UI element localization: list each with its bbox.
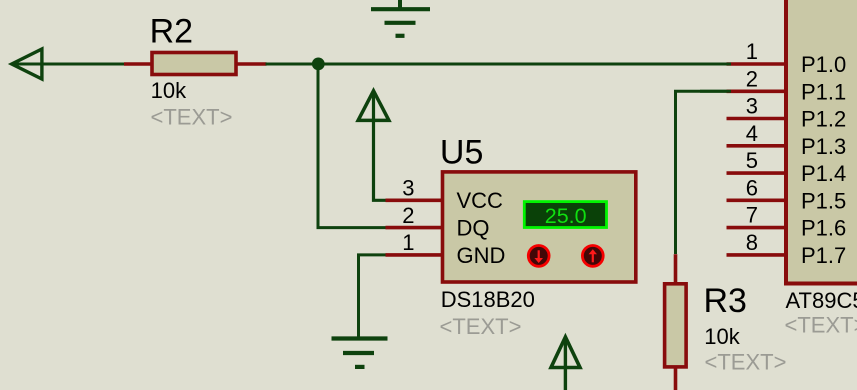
power arrow (U5 VCC) <box>358 91 389 201</box>
svg-text:P1.3: P1.3 <box>801 134 846 159</box>
svg-text:25.0: 25.0 <box>545 204 587 228</box>
chip pin stub 4 <box>727 144 787 148</box>
svg-text:<TEXT>: <TEXT> <box>705 350 787 375</box>
svg-text:8: 8 <box>746 230 758 255</box>
svg-text:10k: 10k <box>151 78 187 103</box>
svg-text:6: 6 <box>746 175 758 200</box>
svg-text:5: 5 <box>746 148 758 173</box>
power arrow (bottom) <box>551 337 580 390</box>
chip pin stub 2 <box>727 90 787 94</box>
svg-text:10k: 10k <box>704 324 740 349</box>
svg-text:R3: R3 <box>704 282 747 320</box>
resistor R2 <box>124 12 267 129</box>
svg-text:P1.7: P1.7 <box>801 243 846 268</box>
svg-text:3: 3 <box>402 176 414 201</box>
chip pin numbers <box>746 39 758 255</box>
svg-text:DQ: DQ <box>457 216 490 241</box>
junction dot <box>312 58 325 71</box>
svg-text:<TEXT>: <TEXT> <box>785 313 857 338</box>
wire: R2 to chip pin 1 <box>266 63 732 66</box>
svg-text:GND: GND <box>457 243 506 268</box>
pin stub 3 VCC <box>386 199 442 203</box>
svg-text:1: 1 <box>402 230 414 255</box>
chip pin stub 5 <box>727 171 787 175</box>
terminal arrow (left) <box>12 49 42 79</box>
LCD display <box>524 202 606 228</box>
svg-text:P1.0: P1.0 <box>801 52 846 77</box>
wire: chip pin 2 to R3 <box>676 91 732 254</box>
svg-text:DS18B20: DS18B20 <box>441 287 535 312</box>
button up <box>582 246 603 267</box>
button down <box>528 246 549 267</box>
wire overlay pin 2 <box>700 90 731 93</box>
ground (top) <box>371 0 430 36</box>
chip pin stub 3 <box>727 117 787 121</box>
wire: junction down to U5 DQ <box>318 64 387 228</box>
wire: left segment to R2 <box>13 63 125 66</box>
svg-text:3: 3 <box>746 94 758 119</box>
svg-text:AT89C52: AT89C52 <box>786 288 857 313</box>
svg-text:4: 4 <box>746 121 758 146</box>
svg-text:P1.2: P1.2 <box>801 107 846 132</box>
sensor U5 (DS18B20) <box>386 133 636 339</box>
ground (bottom, U5) <box>332 339 388 367</box>
svg-text:<TEXT>: <TEXT> <box>151 105 233 130</box>
svg-text:P1.5: P1.5 <box>801 188 846 213</box>
svg-text:P1.6: P1.6 <box>801 216 846 241</box>
svg-text:U5: U5 <box>440 133 483 171</box>
chip pin names P1.0-P1.7 <box>801 52 846 268</box>
svg-text:1: 1 <box>746 39 758 64</box>
pin stub 2 DQ <box>386 226 442 230</box>
svg-text:<TEXT>: <TEXT> <box>440 314 522 339</box>
svg-text:P1.4: P1.4 <box>801 161 846 186</box>
wire overlay pin 1 <box>700 63 731 66</box>
wire: U5 GND to ground <box>359 255 387 338</box>
chip pin stub 6 <box>727 199 787 203</box>
svg-text:2: 2 <box>746 66 758 91</box>
chip pin stub 8 <box>727 253 787 257</box>
svg-text:7: 7 <box>746 203 758 228</box>
chip pin stub 7 <box>727 226 787 230</box>
chip U? AT89C52 body <box>786 0 857 284</box>
chip pin stub 1 <box>727 62 787 66</box>
svg-text:2: 2 <box>402 203 414 228</box>
pin stub 1 GND <box>386 253 442 257</box>
resistor R3 <box>665 254 787 390</box>
U5 body <box>443 172 636 282</box>
svg-text:P1.1: P1.1 <box>801 79 846 104</box>
svg-text:VCC: VCC <box>457 188 504 213</box>
svg-text:R2: R2 <box>150 12 193 50</box>
